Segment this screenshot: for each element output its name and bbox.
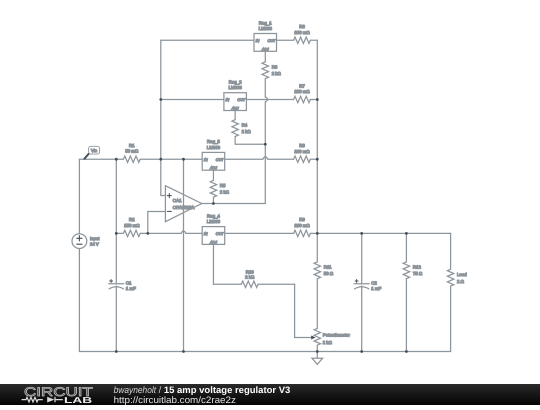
wire ADJ bus vertical with hop over R7 wire xyxy=(265,79,267,204)
svg-text:OUT: OUT xyxy=(237,98,246,102)
resistor R8 100 mOhm xyxy=(294,143,311,162)
op-amp OA1 OPA552PA xyxy=(165,186,201,222)
wire Reg_4 ADJ to R10 to potentiometer wiper xyxy=(213,244,311,337)
wire Vin rail top-left corner to R1 xyxy=(79,159,123,234)
resistor R5 2 kOhm xyxy=(210,170,229,203)
resistor R10 2 kOhm xyxy=(241,269,258,287)
svg-text:LM338: LM338 xyxy=(229,85,243,90)
svg-text:2 kΩ: 2 kΩ xyxy=(242,129,252,134)
svg-text:2 kΩ: 2 kΩ xyxy=(220,190,230,195)
svg-text:C2: C2 xyxy=(371,280,377,285)
svg-text:R6: R6 xyxy=(299,24,305,29)
regulator Reg_4 LM338 xyxy=(202,213,225,244)
svg-text:100 mΩ: 100 mΩ xyxy=(294,223,310,228)
wire C2 branch xyxy=(361,233,363,351)
regulator Reg_3 LM338 xyxy=(202,139,225,170)
resistor Load 2 Ohm xyxy=(447,269,467,286)
svg-text:R2: R2 xyxy=(129,217,135,222)
wire crossing column x=183.5 xyxy=(183,159,185,351)
footer title text xyxy=(114,385,291,395)
node flag Vin xyxy=(84,146,99,159)
svg-text:LM338: LM338 xyxy=(207,145,221,150)
svg-text:Vin: Vin xyxy=(91,148,98,153)
wire Reg_3 OUT to R8 with hop over ADJ bus xyxy=(225,157,318,159)
resistor R11 50 Ohm xyxy=(314,262,334,279)
resistor R12 75 Ohm xyxy=(403,262,423,279)
svg-text:Reg_4: Reg_4 xyxy=(207,213,220,218)
svg-text:24 V: 24 V xyxy=(90,241,99,246)
resistor R4 2 kOhm xyxy=(232,111,265,145)
svg-text:R7: R7 xyxy=(299,83,305,88)
svg-text:LAB: LAB xyxy=(64,395,92,405)
svg-text:R11: R11 xyxy=(324,265,332,270)
svg-text:Reg_3: Reg_3 xyxy=(207,139,220,144)
wire ground rail bottom xyxy=(79,351,450,353)
svg-text:IN: IN xyxy=(226,98,230,102)
wire R12 branch xyxy=(405,233,407,351)
svg-text:OUT: OUT xyxy=(216,232,225,236)
svg-text:ADJ: ADJ xyxy=(209,240,217,244)
svg-text:C1: C1 xyxy=(126,280,132,285)
svg-text:50 Ω: 50 Ω xyxy=(324,271,334,276)
svg-text:Reg_1: Reg_1 xyxy=(259,20,272,25)
ground xyxy=(312,352,323,365)
svg-text:OUT: OUT xyxy=(268,39,277,43)
resistor R6 100 mOhm xyxy=(294,24,311,43)
wire Reg_4 OUT to R9 and output row xyxy=(225,232,451,234)
svg-text:100 mΩ: 100 mΩ xyxy=(294,89,310,94)
resistor R1 50 mOhm xyxy=(123,143,140,162)
resistor R2 150 mOhm xyxy=(123,217,140,236)
wire op-amp output to ADJ bus xyxy=(202,203,266,205)
footer url text xyxy=(114,394,237,405)
potentiometer 2 kOhm xyxy=(311,328,350,345)
svg-text:R9: R9 xyxy=(299,217,305,222)
wire Reg_2 OUT to R7 xyxy=(246,99,317,101)
wire Reg_1 OUT to R6 xyxy=(277,39,318,41)
svg-text:100 mΩ: 100 mΩ xyxy=(294,149,310,154)
capacitor C2 1 mF polarized xyxy=(354,280,381,292)
svg-text:150 mΩ: 150 mΩ xyxy=(124,223,140,228)
svg-text:50 mΩ: 50 mΩ xyxy=(125,149,139,154)
svg-text:IN: IN xyxy=(256,39,260,43)
wire source bottom to ground rail xyxy=(78,248,80,351)
regulator Reg_1 LM338 xyxy=(254,20,277,51)
svg-text:75 Ω: 75 Ω xyxy=(413,271,423,276)
logo CIRCUIT LAB xyxy=(22,385,94,405)
svg-text:ADJ: ADJ xyxy=(261,47,269,51)
svg-text:2 kΩ: 2 kΩ xyxy=(323,340,333,345)
svg-text:2 Ω: 2 Ω xyxy=(457,279,465,284)
svg-text:R3: R3 xyxy=(272,64,278,69)
svg-text:OA1: OA1 xyxy=(173,198,182,203)
svg-text:Potentiometer: Potentiometer xyxy=(323,333,351,338)
svg-text:2 kΩ: 2 kΩ xyxy=(245,275,255,280)
wire output rail right side xyxy=(316,40,318,351)
svg-text:R10: R10 xyxy=(246,269,255,274)
svg-text:2 kΩ: 2 kΩ xyxy=(272,71,282,76)
resistor R9 100 mOhm xyxy=(294,217,311,236)
svg-text:http://circuitlab.com/c2rae2z: http://circuitlab.com/c2rae2z xyxy=(114,394,237,405)
svg-text:R5: R5 xyxy=(220,183,226,188)
svg-text:LM338: LM338 xyxy=(207,219,221,224)
capacitor C1 1 mF polarized xyxy=(109,280,136,292)
wire C1 branch rail xyxy=(115,159,117,351)
wire feed column to Reg_1 and Reg_2 and op-amp + xyxy=(161,40,254,195)
svg-text:Load: Load xyxy=(457,272,467,277)
svg-text:R4: R4 xyxy=(242,122,248,127)
svg-text:LM338: LM338 xyxy=(259,26,273,31)
svg-text:R1: R1 xyxy=(129,143,135,148)
svg-text:1 mF: 1 mF xyxy=(126,286,136,291)
svg-text:100 mΩ: 100 mΩ xyxy=(294,30,310,35)
svg-text:R12: R12 xyxy=(413,265,422,270)
svg-text:Reg_2: Reg_2 xyxy=(229,80,242,85)
svg-text:ADJ: ADJ xyxy=(231,107,239,111)
svg-text:Input: Input xyxy=(90,236,100,241)
svg-text:IN: IN xyxy=(204,158,208,162)
wire R2 row to Reg_4 IN with hop xyxy=(116,231,202,233)
svg-text:R8: R8 xyxy=(299,143,305,148)
voltage source V1 Input 24 V xyxy=(72,234,100,249)
wire op-amp - input to R2 node xyxy=(148,212,166,234)
footer bar xyxy=(0,384,540,405)
regulator Reg_2 LM338 xyxy=(224,80,247,111)
resistor R7 100 mOhm xyxy=(294,83,311,102)
svg-text:OUT: OUT xyxy=(216,158,225,162)
resistor R3 2 kOhm xyxy=(262,51,281,78)
svg-text:ADJ: ADJ xyxy=(209,166,217,170)
wire Load branch xyxy=(450,233,452,351)
svg-text:IN: IN xyxy=(204,232,208,236)
wire R1 to Reg_3 IN xyxy=(140,158,202,160)
svg-text:1 mF: 1 mF xyxy=(371,286,381,291)
